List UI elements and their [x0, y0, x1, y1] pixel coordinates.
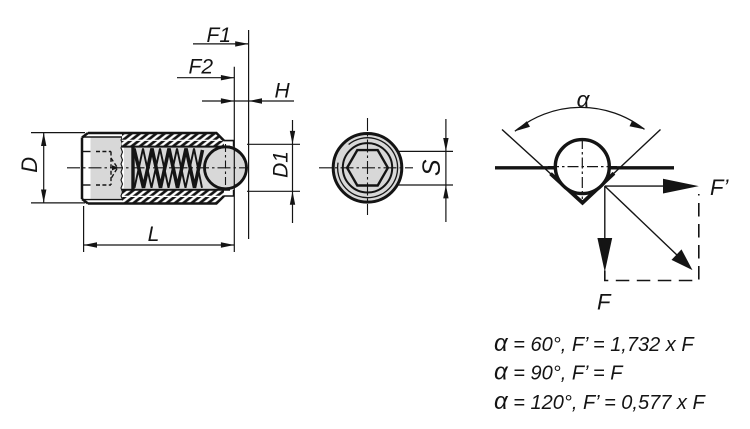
- dimension L: [84, 67, 235, 252]
- svg-text:α = 60°, F’ = 1,732 x F: α = 60°, F’ = 1,732 x F: [494, 330, 695, 357]
- thread arc: [338, 138, 398, 198]
- force F' vector: [605, 185, 665, 187]
- svg-text:F2: F2: [189, 56, 214, 79]
- hexagon: [347, 150, 388, 185]
- chamber inner edges: [122, 146, 230, 148]
- dimension D1: [247, 120, 300, 223]
- dimension D: [31, 133, 85, 203]
- force F vector: [604, 186, 606, 242]
- socket section grey fill: [91, 137, 123, 200]
- spring chamber grey fill: [124, 148, 216, 189]
- workpiece surface line: [495, 166, 674, 169]
- body end lip: [224, 141, 234, 196]
- dimension F2: [177, 77, 234, 79]
- ball: [205, 147, 247, 189]
- svg-text:α = 120°, F’ = 0,577 x F: α = 120°, F’ = 0,577 x F: [494, 388, 706, 415]
- svg-text:α: α: [577, 87, 591, 112]
- svg-text:S: S: [418, 159, 446, 176]
- hex socket hidden lines: [96, 152, 118, 186]
- svg-text:D1: D1: [270, 151, 293, 178]
- svg-text:F’: F’: [710, 175, 729, 200]
- body outline: [82, 133, 224, 204]
- arc arrowhead left: [515, 121, 530, 131]
- svg-text:D: D: [17, 157, 42, 173]
- V groove thick part: [551, 173, 615, 203]
- spring: [133, 147, 203, 190]
- hatched wall bottom: [122, 190, 224, 203]
- svg-text:H: H: [275, 80, 291, 103]
- centerline (horizontal axis of plunger): [67, 167, 249, 169]
- svg-text:F1: F1: [207, 24, 232, 47]
- crosshair centerlines: [319, 167, 413, 169]
- svg-text:L: L: [148, 223, 160, 246]
- dimension S: [397, 119, 453, 222]
- bore lip arcs on ball: [234, 150, 245, 161]
- break line (zigzag): [121, 137, 123, 200]
- outer circle: [333, 134, 402, 203]
- inner circle: [343, 143, 392, 192]
- socket opening lines on end face: [82, 151, 91, 153]
- svg-text:α = 90°, F’ = F: α = 90°, F’ = F: [494, 359, 624, 386]
- V groove thin lines: [502, 130, 661, 203]
- svg-text:F: F: [597, 290, 612, 315]
- ball crosshair: [548, 166, 617, 168]
- dimension F1: [248, 30, 250, 239]
- hatched wall top: [122, 134, 224, 147]
- arc arrowhead right: [630, 120, 645, 129]
- dashed construction lines: [605, 194, 699, 281]
- ball vertical centerline: [225, 144, 227, 192]
- thread root lines left section: [83, 136, 122, 138]
- angle dimension arc: [515, 107, 645, 131]
- socket cone tip mark: [112, 165, 119, 170]
- dimension H: [202, 100, 294, 102]
- ball in groove: [555, 140, 609, 194]
- resultant vector: [605, 186, 678, 256]
- thread mid lines on walls: [122, 139, 223, 141]
